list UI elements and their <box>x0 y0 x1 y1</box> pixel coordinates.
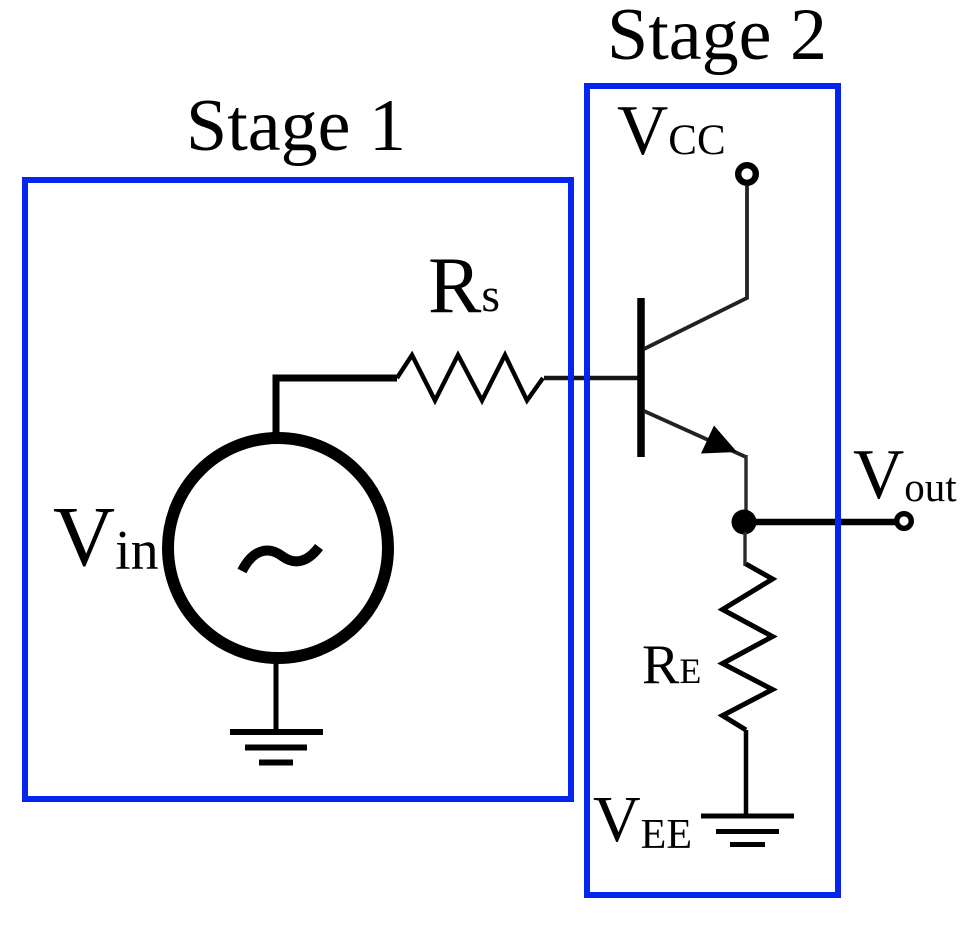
svg-text:Stage 1: Stage 1 <box>186 85 406 167</box>
svg-text:Stage 2: Stage 2 <box>607 0 827 76</box>
